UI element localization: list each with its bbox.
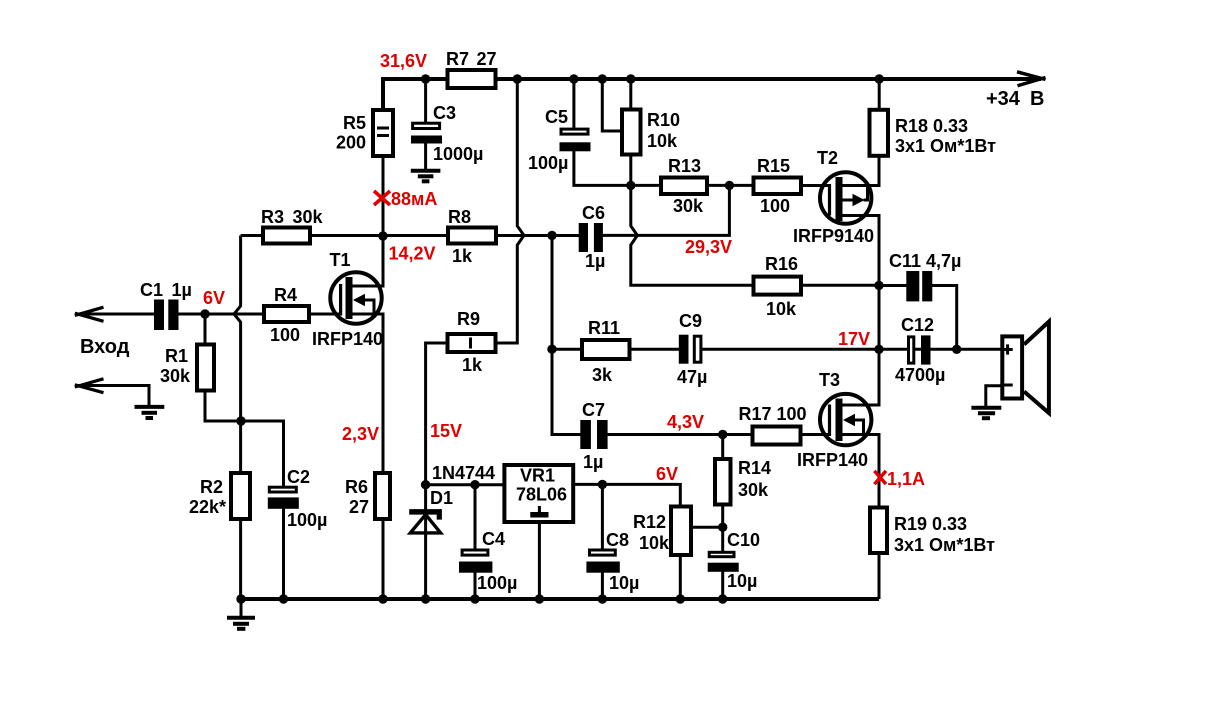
resistor R8 [448, 228, 496, 244]
svg-text:T2: T2 [817, 148, 838, 168]
label R4 [270, 285, 300, 345]
node R13-R15 [725, 181, 734, 190]
wire C10 bottom [721, 571, 724, 599]
node C5-R10-R13 [626, 181, 635, 190]
svg-text:C7: C7 [582, 400, 605, 420]
node rail-R10 [626, 74, 635, 83]
wire T2 source up to R18 [842, 157, 879, 186]
wire C6 node vertical down to C7 [552, 235, 581, 434]
wire C11 right down to output row [932, 286, 957, 350]
svg-text:IRFP9140: IRFP9140 [793, 226, 874, 246]
resistor R2 [231, 473, 250, 519]
svg-text:27: 27 [477, 49, 497, 69]
label 15V (red) [430, 421, 462, 441]
wire R11 right to C9 [631, 348, 680, 351]
wire R18 stub from rail [878, 79, 881, 108]
node rail-D1 [421, 594, 430, 603]
capacitor C5 [560, 129, 591, 151]
svg-text:1k: 1k [462, 355, 483, 375]
wire C8 stub [601, 484, 604, 550]
capacitor C10 [708, 552, 739, 572]
transistor T1 IRFP140 [330, 272, 381, 323]
svg-text:6V: 6V [203, 288, 225, 308]
svg-text:100µ: 100µ [528, 153, 568, 173]
label R6 [345, 477, 369, 517]
label C1 value [140, 280, 192, 300]
wire C4 bottom [474, 572, 477, 599]
svg-text:88мА: 88мА [391, 189, 437, 209]
ground input [135, 407, 165, 418]
wire VR1 gnd pin [538, 523, 541, 599]
svg-text:100: 100 [270, 325, 300, 345]
capacitor C1 [154, 300, 179, 331]
svg-text:+34: +34 [986, 88, 1021, 110]
label C10 [727, 530, 760, 591]
svg-text:17V: 17V [838, 329, 870, 349]
svg-text:4700µ: 4700µ [895, 365, 945, 385]
capacitor C6 [579, 223, 603, 252]
svg-text:R17 100: R17 100 [739, 404, 807, 424]
svg-text:R5: R5 [343, 113, 366, 133]
transistor T2 IRFP9140 [820, 172, 871, 223]
svg-text:47µ: 47µ [677, 367, 707, 387]
wire R13 right to R15 left [709, 184, 752, 187]
label C7 [582, 400, 605, 472]
resistor R7 [448, 70, 496, 88]
svg-text:Вход: Вход [80, 336, 130, 358]
svg-text:R6: R6 [345, 477, 368, 497]
capacitor C7 [580, 420, 607, 449]
wire C7 right to 4.3V node and R17 [607, 433, 751, 436]
wire D1 to ground rail [424, 485, 427, 599]
node rail-VR1 [535, 594, 544, 603]
wire 15V node row to VR1 [426, 483, 503, 486]
svg-text:10k: 10k [647, 131, 678, 151]
svg-text:10k: 10k [766, 299, 797, 319]
svg-text:C4: C4 [482, 529, 505, 549]
label R13 [668, 156, 704, 216]
wire input arrow 2 to ground [78, 386, 149, 407]
label R14 [738, 458, 771, 500]
capacitor C8 [586, 550, 619, 573]
ground C3 [411, 171, 441, 182]
svg-text:22k*: 22k* [189, 497, 226, 517]
wire input to C1 [78, 313, 154, 316]
wire C9 right to speaker (17V output row) [702, 348, 1001, 351]
svg-text:R10: R10 [647, 110, 680, 130]
wire T1 source down to R6 [352, 314, 383, 472]
label R15 [757, 156, 790, 216]
svg-text:1N4744: 1N4744 [432, 463, 495, 483]
node rail-C4 [470, 594, 479, 603]
label R11 [588, 318, 620, 385]
node rail-C10 [718, 594, 727, 603]
wire R10 bottom to R16 (with jog at y=235.4) [631, 156, 752, 285]
wire R13/R15 node down to C6 row [603, 185, 730, 235]
node rail-x517 [513, 74, 522, 83]
label T3 type [797, 450, 868, 470]
wire VR1 output 6V row [575, 484, 680, 506]
resistor R15 [754, 178, 802, 195]
node input arrow 1 [75, 307, 104, 321]
svg-text:100µ: 100µ [287, 510, 327, 530]
svg-text:VR1: VR1 [520, 466, 555, 486]
svg-text:3x1 Ом*1Вт: 3x1 Ом*1Вт [894, 535, 995, 555]
svg-text:C9: C9 [679, 311, 702, 331]
svg-text:C8: C8 [606, 530, 629, 550]
label R3 [261, 207, 324, 227]
wire C4 stub [474, 485, 477, 550]
svg-text:100µ: 100µ [477, 573, 517, 593]
resistor R6 [375, 473, 390, 519]
node C4 top [470, 480, 479, 489]
resistor R12 [671, 507, 691, 556]
svg-text:IRFP140: IRFP140 [797, 450, 868, 470]
svg-text:78L06: 78L06 [516, 485, 567, 505]
label T3 [819, 370, 840, 390]
transistor T3 IRFP140 [820, 394, 871, 445]
resistor R14 [715, 459, 731, 505]
voltage regulator U VR1 78L06 box [504, 465, 573, 522]
resistor R4 [264, 306, 309, 322]
wire +34V top rail [383, 79, 1041, 108]
wire R10 stub from rail [629, 79, 632, 108]
node rail-C8 [598, 594, 607, 603]
label 1.1A (red) [887, 469, 925, 489]
wire R12 bottom [679, 556, 682, 599]
ground bottom rail [227, 599, 255, 629]
node rail-stub [598, 74, 607, 83]
capacitor C2 [268, 487, 299, 509]
label R7 [446, 49, 497, 69]
node 14.2V [378, 231, 387, 240]
label C9 [677, 311, 707, 387]
svg-text:T3: T3 [819, 370, 840, 390]
wire R3 left column (with crossover jog at y=314) [234, 236, 241, 472]
svg-text:R12: R12 [633, 512, 666, 532]
label 29.3V (red) [685, 237, 732, 257]
label R1 [160, 346, 191, 386]
svg-text:R16: R16 [765, 254, 798, 274]
node 6V input [200, 309, 209, 318]
label R17 [739, 404, 807, 424]
wire R14 bottom to C10 junction [721, 505, 724, 552]
svg-text:R9: R9 [457, 309, 480, 329]
node rail-C3 [421, 74, 430, 83]
wire C5 stub [572, 79, 575, 128]
resistor R18 [870, 110, 889, 156]
capacitor C3 [411, 123, 442, 143]
svg-text:15V: 15V [430, 421, 462, 441]
svg-text:R4: R4 [274, 285, 297, 305]
node R1-R2-C2 [236, 416, 245, 425]
svg-text:R2: R2 [200, 477, 223, 497]
svg-text:3x1 Ом*1Вт: 3x1 Ом*1Вт [895, 136, 996, 156]
node C8 top [598, 480, 607, 489]
svg-text:4,3V: 4,3V [667, 412, 704, 432]
node rail-R2 [236, 594, 245, 603]
resistor R11 [582, 340, 630, 359]
node +34V arrow [1017, 72, 1046, 86]
node 4.3V [718, 430, 727, 439]
resistor R3 [263, 228, 310, 244]
svg-text:C3: C3 [433, 103, 456, 123]
label 6V regulator (red) [656, 464, 678, 484]
svg-text:R15: R15 [757, 156, 790, 176]
svg-text:R18 0.33: R18 0.33 [895, 116, 968, 136]
wire R6 bottom [382, 520, 385, 599]
svg-text:В: В [1030, 88, 1044, 110]
resistor R5 [373, 110, 393, 156]
wire C3 stub [424, 79, 427, 123]
label C5 [528, 107, 568, 173]
capacitor C9 [679, 335, 701, 364]
label 31.6V (red) [380, 51, 427, 71]
svg-text:1000µ: 1000µ [433, 144, 483, 164]
svg-text:6V: 6V [656, 464, 678, 484]
capacitor C11 [906, 271, 932, 301]
wire R9 left to 15V node [426, 343, 446, 485]
wire R1 bottom L to junction [205, 392, 241, 421]
resistor R19 [870, 508, 887, 554]
svg-text:10µ: 10µ [727, 571, 757, 591]
label VR1 [516, 466, 567, 505]
red X 88mA [374, 191, 390, 205]
wire R4 right to T1 gate [310, 313, 341, 316]
label 88mA (red) [391, 189, 437, 209]
svg-text:R13: R13 [668, 156, 701, 176]
wire C3 to ground [424, 143, 427, 170]
wire R3-R8 row (14.2V node row) [241, 234, 579, 237]
svg-text:10k: 10k [639, 533, 670, 553]
wire R16 right lead [803, 284, 880, 287]
svg-text:C6: C6 [582, 203, 605, 223]
wire C10 junction to R12 right edge [693, 526, 723, 529]
node R16-C11 [874, 281, 883, 290]
node C11-C12 right [952, 345, 961, 354]
label R8 [448, 207, 473, 266]
resistor R1 [197, 345, 214, 391]
label 17V (red) [838, 329, 870, 349]
node 17V column [874, 345, 883, 354]
label 14.2V (red) [389, 244, 436, 264]
svg-text:C11 4,7µ: C11 4,7µ [889, 251, 961, 271]
wire C5 bottom to R13 row [574, 151, 659, 185]
wire R15 right to T2 gate [803, 184, 831, 187]
svg-text:29,3V: 29,3V [685, 237, 732, 257]
label T1 [330, 250, 351, 270]
label T2 [817, 148, 838, 168]
wire speaker minus to ground [986, 386, 1001, 407]
svg-text:200: 200 [336, 133, 366, 153]
wire rail to R9 right (x=517 with jog) [497, 79, 524, 343]
wire T3 source to R19 [842, 435, 879, 507]
svg-text:R19 0.33: R19 0.33 [894, 514, 967, 534]
label R9 [457, 309, 483, 375]
wire junction to C2 top [241, 421, 284, 487]
svg-text:T1: T1 [330, 250, 351, 270]
svg-text:R14: R14 [738, 458, 771, 478]
label C4 [477, 529, 517, 593]
label 6V input (red) [203, 288, 225, 308]
wire ground rail bottom [241, 597, 879, 601]
svg-text:R7: R7 [446, 49, 469, 69]
svg-text:27: 27 [349, 497, 369, 517]
svg-text:1k: 1k [452, 246, 473, 266]
wire R17 right to T3 gate [802, 433, 830, 436]
svg-text:C5: C5 [545, 107, 568, 127]
node C6 left [547, 231, 556, 240]
node rail-C2 [279, 594, 288, 603]
label C6 [582, 203, 605, 271]
svg-text:IRFP140: IRFP140 [312, 329, 383, 349]
node 15V-D1 [421, 480, 430, 489]
svg-text:30k: 30k [293, 207, 324, 227]
wire R19 bottom to ground rail corner [878, 554, 881, 599]
wire T2 drain down to T3 drain [842, 216, 879, 406]
label R12 [633, 512, 670, 553]
wire T1 drain up [352, 236, 383, 287]
red X 1.1A [874, 471, 886, 484]
svg-text:31,6V: 31,6V [380, 51, 427, 71]
svg-text:C12: C12 [901, 315, 934, 335]
resistor R13 [661, 178, 707, 195]
svg-text:3k: 3k [592, 365, 613, 385]
node rail-R6 [378, 594, 387, 603]
label Vhod [80, 336, 130, 358]
wire 6V node down to R1 [204, 314, 207, 343]
label +34V [986, 88, 1044, 110]
svg-text:2,3V: 2,3V [342, 424, 379, 444]
svg-text:C10: C10 [727, 530, 760, 550]
svg-text:30k: 30k [738, 480, 769, 500]
node rail-R12 [676, 594, 685, 603]
label 4.3V (red) [667, 412, 704, 432]
wire C2 bottom to ground rail [282, 508, 285, 599]
label C12 [895, 315, 945, 385]
label R16 [765, 254, 798, 319]
label R10 [647, 110, 680, 151]
wire R11 left lead [552, 348, 581, 351]
wire C8 bottom [601, 572, 604, 599]
capacitor C4 [459, 550, 492, 573]
node rail-C5 [569, 74, 578, 83]
label T2 type [793, 226, 874, 246]
svg-text:1µ: 1µ [583, 452, 603, 472]
node input arrow 2 [75, 379, 104, 393]
label R18 [895, 116, 996, 156]
svg-text:1µ: 1µ [585, 251, 605, 271]
label C8 [606, 530, 639, 593]
wire R2 bottom [239, 520, 242, 599]
svg-text:1µ: 1µ [172, 280, 192, 300]
label C3 [433, 103, 483, 164]
label D1 type [432, 463, 495, 483]
svg-text:D1: D1 [430, 488, 453, 508]
node R14-C10-R12 [718, 523, 727, 532]
resistor R17 [753, 427, 801, 445]
resistor R10 [622, 110, 641, 155]
ground speaker [971, 408, 1001, 419]
resistor R9 [448, 334, 496, 352]
svg-text:30k: 30k [160, 366, 191, 386]
svg-text:1,1A: 1,1A [887, 469, 925, 489]
label R2 [189, 477, 226, 517]
diode D1 (zener 1N4744) [409, 509, 442, 533]
svg-text:30k: 30k [673, 196, 704, 216]
svg-text:R8: R8 [448, 207, 471, 227]
label C11 [889, 251, 961, 271]
svg-text:R3: R3 [261, 207, 284, 227]
wire R5 column / main node [382, 157, 385, 236]
wire 4.3V node down to R14 [721, 435, 724, 459]
label D1 [430, 488, 453, 508]
svg-text:C2: C2 [287, 467, 310, 487]
svg-text:R1: R1 [165, 346, 188, 366]
label 2.3V (red) [342, 424, 379, 444]
svg-text:100: 100 [760, 196, 790, 216]
wire L-stub rail to R10 left [602, 79, 620, 131]
speaker LS1 [1001, 322, 1049, 413]
resistor R16 [754, 277, 802, 295]
svg-text:R11: R11 [588, 318, 620, 338]
label R5 [336, 113, 366, 153]
capacitor C12 [909, 335, 931, 364]
svg-text:14,2V: 14,2V [389, 244, 436, 264]
label C2 [287, 467, 327, 530]
node R11 left [547, 345, 556, 354]
label R19 [894, 514, 995, 555]
svg-text:10µ: 10µ [609, 573, 639, 593]
wire C11 left lead [879, 284, 907, 287]
label T1 type [312, 329, 383, 349]
wire C1 to R4 (6V node) [177, 313, 263, 316]
node rail-R18 [875, 74, 884, 83]
svg-text:C1: C1 [140, 280, 163, 300]
